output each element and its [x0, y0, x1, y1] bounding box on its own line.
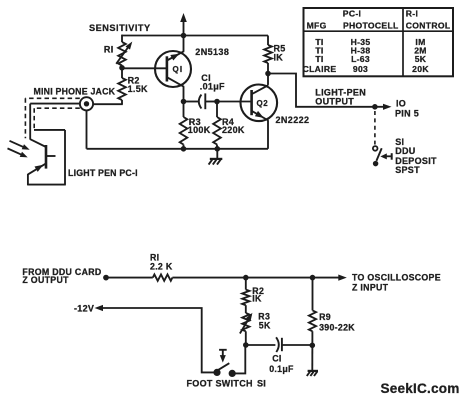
- svg-text:2N5138: 2N5138: [195, 47, 229, 57]
- svg-text:R9: R9: [319, 312, 331, 322]
- svg-text:220K: 220K: [222, 125, 245, 135]
- svg-text:TI: TI: [315, 54, 323, 64]
- svg-text:100K: 100K: [188, 125, 211, 135]
- svg-text:SI: SI: [257, 378, 266, 388]
- svg-text:Q2: Q2: [257, 99, 269, 108]
- svg-text:SENSITIVITY: SENSITIVITY: [89, 23, 151, 33]
- svg-text:390-22K: 390-22K: [319, 323, 355, 333]
- svg-text:LIGHT PEN PC-I: LIGHT PEN PC-I: [68, 168, 138, 178]
- svg-text:DDU: DDU: [395, 146, 415, 156]
- svg-text:L-63: L-63: [351, 54, 370, 64]
- svg-text:CONTROL: CONTROL: [406, 20, 451, 30]
- svg-text:CI: CI: [272, 353, 281, 363]
- svg-text:0.1μF: 0.1μF: [269, 364, 294, 374]
- svg-text:OUTPUT: OUTPUT: [315, 96, 354, 106]
- svg-text:TO OSCILLOSCOPE: TO OSCILLOSCOPE: [352, 273, 441, 283]
- svg-text:PHOTOCELL: PHOTOCELL: [343, 20, 399, 30]
- svg-text:SPST: SPST: [395, 165, 420, 175]
- svg-text:Z INPUT: Z INPUT: [352, 282, 389, 292]
- svg-text:IK: IK: [274, 53, 284, 63]
- svg-text:1.5K: 1.5K: [128, 84, 148, 94]
- svg-text:5K: 5K: [259, 320, 271, 330]
- svg-text:FOOT SWITCH: FOOT SWITCH: [187, 378, 253, 388]
- svg-text:2.2 K: 2.2 K: [150, 261, 173, 271]
- svg-text:Z OUTPUT: Z OUTPUT: [22, 275, 69, 285]
- svg-text:IO: IO: [396, 99, 406, 109]
- svg-text:20K: 20K: [412, 64, 429, 74]
- svg-text:IK: IK: [252, 294, 262, 304]
- svg-text:R-I: R-I: [406, 8, 418, 18]
- svg-text:5K: 5K: [415, 54, 427, 64]
- svg-text:2N2222: 2N2222: [276, 115, 310, 125]
- svg-text:PC-I: PC-I: [343, 8, 361, 18]
- svg-text:QI: QI: [173, 65, 184, 74]
- svg-text:MFG: MFG: [307, 20, 327, 30]
- svg-text:PIN 5: PIN 5: [395, 108, 419, 118]
- svg-text:RI: RI: [104, 44, 114, 54]
- svg-text:SeekIC.com: SeekIC.com: [381, 381, 460, 396]
- svg-text:CLAIRE: CLAIRE: [303, 64, 337, 74]
- svg-text:.01μF: .01μF: [200, 81, 225, 91]
- svg-text:903: 903: [353, 64, 368, 74]
- svg-text:-12V: -12V: [74, 304, 94, 314]
- svg-text:MINI PHONE JACK: MINI PHONE JACK: [34, 87, 116, 97]
